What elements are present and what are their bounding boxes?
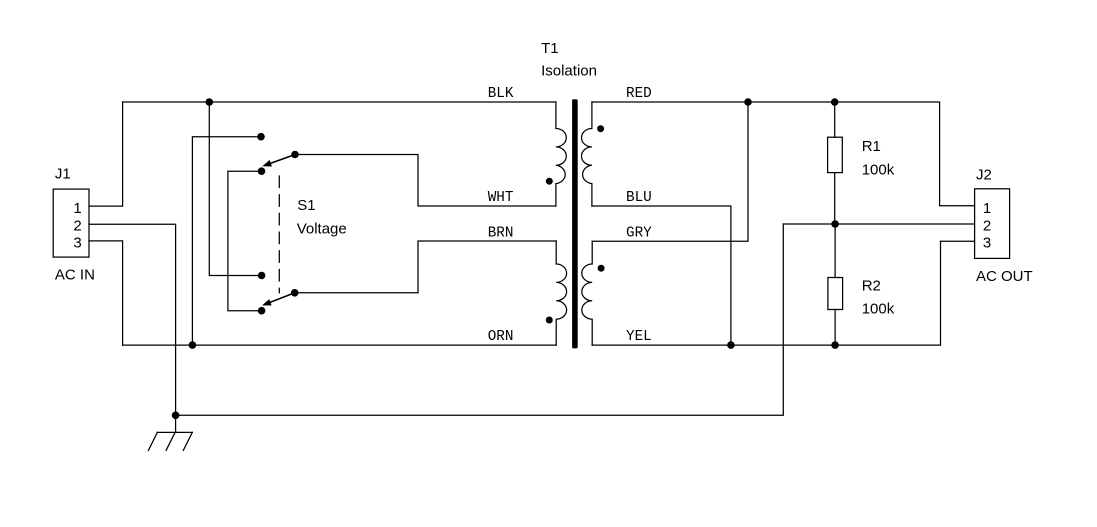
wire BLU rail down to YEL junction bbox=[592, 206, 731, 345]
phase dot primary 1 bbox=[546, 178, 553, 185]
node junction ground rail bbox=[172, 412, 180, 420]
phase dot secondary 2 bbox=[598, 265, 605, 272]
wire YEL rail to J2 pin3 bbox=[592, 241, 974, 345]
svg-text:BLU: BLU bbox=[626, 190, 652, 206]
node junction RED/GRY bbox=[744, 98, 752, 106]
node junction center/R1/R2 bbox=[831, 220, 839, 228]
svg-text:S1: S1 bbox=[297, 197, 315, 214]
svg-text:100k: 100k bbox=[862, 161, 895, 178]
svg-text:GRY: GRY bbox=[626, 225, 652, 241]
svg-text:T1: T1 bbox=[541, 40, 559, 57]
switch S1 upper pole bbox=[291, 151, 299, 159]
wire switch upper contact B to lower contact B bbox=[228, 171, 262, 311]
svg-text:J2: J2 bbox=[976, 167, 992, 184]
svg-text:BRN: BRN bbox=[488, 225, 514, 241]
ground (chassis) symbol bbox=[148, 432, 192, 450]
wire J1 pin2 down to ground rail bbox=[89, 224, 176, 415]
node junction YEL/R2 bbox=[831, 341, 839, 349]
phase dot secondary 1 bbox=[597, 125, 604, 132]
svg-text:AC IN: AC IN bbox=[55, 267, 95, 284]
wire J1 pin1 to top BLK rail bbox=[89, 102, 123, 206]
wire center node to J2 pin2 bbox=[783, 223, 974, 225]
connector J2 body bbox=[975, 189, 1010, 259]
resistor R1 lead top bbox=[834, 102, 836, 137]
transformer T1 secondary winding 2 (GRY-YEL) bbox=[582, 241, 592, 345]
svg-text:3: 3 bbox=[73, 235, 81, 252]
transformer T1 core bbox=[572, 99, 578, 348]
ground stem wire bbox=[175, 415, 177, 432]
svg-text:R2: R2 bbox=[862, 277, 881, 294]
switch S1 lower pole bbox=[291, 289, 299, 297]
node junction on ORN rail bbox=[189, 341, 197, 349]
switch S1 upper contact A bbox=[257, 133, 265, 141]
switch S1 upper contact B bbox=[258, 167, 266, 175]
wire ground rail from J1 pin2 node to center tap bbox=[176, 224, 784, 415]
svg-text:3: 3 bbox=[983, 235, 991, 252]
wire J1 pin3 down to ORN rail bbox=[89, 241, 123, 345]
switch S1 lower contact A bbox=[258, 272, 266, 280]
node junction YEL/BLU bbox=[727, 341, 735, 349]
node junction on BLK rail bbox=[206, 98, 214, 106]
svg-text:1: 1 bbox=[73, 200, 81, 217]
wire RED rail to J2 pin1 bbox=[592, 102, 975, 206]
phase dot primary 2 bbox=[546, 317, 553, 324]
transformer T1 primary winding 2 (BRN-ORN) bbox=[556, 241, 566, 345]
resistor R2 lead bottom bbox=[834, 310, 836, 346]
wire upper pole to transformer WHT bbox=[295, 155, 556, 207]
resistor R2 body bbox=[828, 278, 843, 310]
svg-text:AC OUT: AC OUT bbox=[976, 268, 1033, 285]
switch S1 lower contact B bbox=[258, 307, 266, 315]
svg-text:100k: 100k bbox=[862, 300, 895, 317]
svg-text:2: 2 bbox=[73, 218, 81, 235]
wire ORN rail bbox=[123, 344, 557, 346]
svg-text:ORN: ORN bbox=[488, 329, 514, 345]
node junction RED/R1 bbox=[831, 98, 839, 106]
resistor R1 lead bottom bbox=[834, 173, 836, 224]
svg-text:YEL: YEL bbox=[626, 329, 652, 345]
switch S1 upper blade arrow bbox=[262, 155, 295, 167]
wire switch upper contact A down to ORN rail bbox=[192, 137, 261, 345]
svg-text:R1: R1 bbox=[862, 138, 881, 155]
wire GRY rail up to RED junction bbox=[592, 102, 748, 241]
switch S1 mechanical link (dashed) bbox=[278, 176, 280, 293]
svg-text:RED: RED bbox=[626, 86, 652, 102]
wire BLK junction down to switch lower contact A bbox=[209, 102, 261, 276]
connector J1 body bbox=[53, 189, 89, 257]
resistor R1 body bbox=[828, 137, 843, 172]
svg-text:Isolation: Isolation bbox=[541, 62, 597, 79]
svg-text:BLK: BLK bbox=[488, 86, 514, 102]
svg-text:J1: J1 bbox=[55, 166, 71, 183]
svg-text:1: 1 bbox=[983, 200, 991, 217]
svg-text:WHT: WHT bbox=[488, 190, 514, 206]
resistor R2 lead top bbox=[834, 224, 836, 278]
switch S1 lower blade arrow bbox=[262, 293, 295, 306]
transformer T1 secondary winding 1 (RED-BLU) bbox=[582, 102, 592, 206]
wire lower pole to transformer BRN bbox=[295, 241, 557, 293]
wire top BLK rail bbox=[123, 101, 556, 103]
transformer T1 primary winding 1 (BLK-WHT) bbox=[556, 102, 566, 206]
svg-text:Voltage: Voltage bbox=[297, 221, 347, 238]
svg-text:2: 2 bbox=[983, 218, 991, 235]
